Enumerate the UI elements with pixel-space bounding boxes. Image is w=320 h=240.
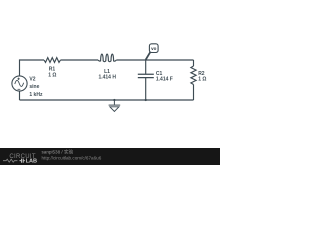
svg-text:1 Ω: 1 Ω xyxy=(198,77,206,83)
svg-text:sanpi538 / 实验: sanpi538 / 实验 xyxy=(42,148,74,155)
capacitor C1 plates xyxy=(138,74,154,77)
wire right vertical upper xyxy=(193,60,195,66)
voltage source V2 plus sign xyxy=(17,78,19,80)
resistor R2 xyxy=(191,66,196,85)
svg-text:sine: sine xyxy=(29,84,39,90)
wire top-left and left vertical xyxy=(20,60,45,76)
voltage source V2 minus sign xyxy=(18,88,21,90)
ground stem xyxy=(113,100,115,105)
svg-text:http://circuitlab.com/c/67a6u6: http://circuitlab.com/c/67a6u6 xyxy=(42,155,102,160)
junction dot C1 bottom node xyxy=(145,99,147,101)
wire R1 to L1 xyxy=(61,59,99,61)
wire right vertical lower xyxy=(193,85,195,101)
node flag vo box xyxy=(149,44,158,53)
inductor L1 xyxy=(98,54,116,62)
voltage source V2 circle xyxy=(12,76,27,91)
wire left vertical lower xyxy=(19,91,21,100)
node flag vo lead xyxy=(146,52,151,60)
resistor R1 xyxy=(44,58,61,63)
junction dot ground node xyxy=(113,99,115,101)
svg-text:1.414 F: 1.414 F xyxy=(156,77,173,83)
svg-text:V2: V2 xyxy=(29,76,35,82)
wire L1 to top-right corner xyxy=(116,59,193,61)
svg-text:1 kHz: 1 kHz xyxy=(29,92,43,98)
logo wire zigzag xyxy=(3,159,17,162)
ground triangle xyxy=(110,107,119,112)
capacitor C1 top stem xyxy=(145,60,147,74)
capacitor C1 bottom stem xyxy=(145,78,147,100)
svg-text:1 Ω: 1 Ω xyxy=(48,72,56,78)
logo capacitor symbol xyxy=(20,159,25,163)
svg-text:vo: vo xyxy=(151,46,157,51)
voltage source V2 sine wave xyxy=(15,80,24,86)
footer bar xyxy=(0,148,220,165)
wire bottom rail xyxy=(20,99,194,101)
svg-text:1.414 H: 1.414 H xyxy=(98,74,116,80)
svg-text:LAB: LAB xyxy=(26,159,37,165)
ground bar xyxy=(109,104,121,106)
